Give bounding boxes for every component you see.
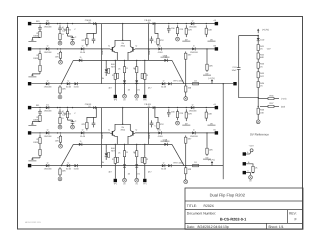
svg-text:MFOS R202 SCH: MFOS R202 SCH: [25, 221, 41, 224]
diode D4: [80, 45, 86, 54]
capacitor C4: [92, 36, 96, 43]
wire emitter drop 1b: [114, 144, 116, 155]
terminal tick J11: [252, 172, 254, 174]
terminal TP0a: [123, 94, 127, 101]
wire emitter 0b: [128, 52, 130, 60]
svg-text:47K: 47K: [160, 39, 164, 42]
svg-text:RP2 100K: RP2 100K: [174, 161, 185, 164]
ground G1d: [58, 95, 62, 99]
resistor R24: [176, 109, 183, 120]
diode D1: [44, 19, 52, 28]
svg-text:100K: 100K: [33, 57, 39, 60]
svg-text:RP1 100K: RP1 100K: [174, 80, 185, 83]
svg-text:Date:: Date:: [187, 225, 195, 229]
node B01: [57, 48, 58, 49]
transistor Q3: [108, 128, 115, 136]
resistor R34: [123, 146, 128, 161]
diode D8b: [168, 82, 171, 85]
diode D9: [44, 103, 52, 112]
diode D7e: [164, 56, 167, 62]
node link 1c: [223, 83, 224, 84]
terminal T0a: [114, 95, 117, 98]
resistor R14: [123, 62, 128, 77]
node bridge 0: [122, 23, 123, 24]
wire row A0 left: [31, 23, 215, 25]
capacitor C10: [71, 120, 77, 125]
ground G2d: [58, 177, 62, 181]
resistor R37: [59, 167, 66, 176]
svg-text:47K: 47K: [188, 113, 192, 116]
diode D10: [257, 36, 265, 44]
svg-text:4148: 4148: [158, 135, 164, 138]
wire A1 stub: [68, 119, 73, 121]
input connector J4: [28, 106, 31, 109]
wire emitter drop 1e: [144, 144, 146, 155]
resistor R9: [81, 36, 88, 46]
resistor R30: [157, 120, 164, 130]
input connector J6: [28, 131, 31, 134]
terminal TP1a: [123, 178, 127, 185]
svg-text:47K: 47K: [81, 39, 85, 42]
net 0V label 1b: [182, 122, 190, 125]
capacitor C9: [58, 109, 66, 116]
output connector J7: [215, 131, 218, 134]
title block row line 1: [185, 200, 303, 202]
wire emitter drop 1e2: [144, 166, 146, 179]
resistor R32: [206, 146, 213, 156]
wire collector bridge 0: [115, 40, 130, 46]
node bias 1b: [154, 107, 155, 108]
terminal T0b: [143, 95, 146, 98]
svg-text:100K: 100K: [33, 35, 39, 38]
svg-text:1N4148: 1N4148: [44, 51, 52, 54]
wire cross right 0: [148, 24, 150, 61]
resistor R36b: [141, 157, 143, 162]
transistor Q4: [130, 128, 137, 136]
diode D7b: [108, 68, 110, 73]
resistor R10: [157, 36, 164, 46]
wire emitter drop 0e: [144, 60, 146, 71]
svg-text:4148: 4148: [66, 86, 72, 89]
svg-text:1N4148: 1N4148: [190, 51, 198, 54]
terminal T1b: [143, 179, 146, 182]
resistor R16b: [141, 73, 143, 78]
svg-text:(+2V): (+2V): [281, 98, 287, 101]
ground G supply: [256, 120, 260, 124]
diode D7a: [44, 80, 52, 89]
node A12: [67, 107, 68, 108]
wire bias 1a: [87, 108, 96, 121]
ground G0b: [71, 41, 75, 45]
svg-text:Q: Q: [108, 128, 110, 131]
wire lower row 1 left: [73, 59, 106, 61]
wire emitter 1b: [128, 136, 130, 144]
wire A0 stub: [68, 35, 73, 37]
connector J10: [243, 152, 246, 155]
resistor R21: [33, 115, 41, 121]
title block row line 3: [185, 222, 303, 224]
resistor R11: [185, 52, 193, 61]
capacitor C1: [58, 25, 66, 32]
svg-text:10K: 10K: [208, 113, 212, 116]
input connector J9: [28, 164, 31, 167]
net 0V label 1a: [28, 123, 36, 126]
svg-text:(1): (1): [88, 105, 91, 108]
wire emitter drop 0d: [136, 87, 138, 94]
resistor R1: [33, 31, 41, 37]
svg-text:22K: 22K: [179, 28, 183, 31]
wire link chain 1b: [185, 94, 187, 97]
svg-text:10K: 10K: [209, 149, 213, 152]
wire link chain 2b: [185, 176, 187, 180]
wire J11: [246, 164, 253, 166]
resistor R13: [112, 71, 117, 82]
net 0V label 0d: [28, 74, 36, 77]
power tag +V 1b: [144, 103, 155, 109]
diode D5: [158, 45, 164, 54]
diode D15: [105, 150, 108, 160]
resistor R3: [63, 25, 69, 36]
resistor R8: [39, 63, 41, 74]
diode D2: [189, 19, 197, 28]
resistor R35: [133, 146, 138, 161]
wire collector bridge 1: [115, 124, 130, 130]
svg-text:(1): (1): [148, 21, 151, 24]
diode D11: [44, 129, 52, 138]
capacitor C0: [38, 25, 42, 31]
wire supply left leg: [238, 36, 240, 63]
wire supply left leg 2: [239, 75, 259, 98]
transistor Q1: [108, 44, 115, 52]
power tag +V 1a: [85, 103, 96, 109]
wire to net label 1b: [32, 158, 40, 160]
resistor R15: [133, 62, 138, 77]
diode D16a: [161, 161, 167, 170]
resistor R18: [193, 79, 199, 85]
capacitor C5: [150, 36, 157, 43]
resistor R38: [55, 135, 62, 144]
diode D15a: [44, 161, 52, 170]
resistor R43: [257, 61, 265, 71]
wire lower row 2 left: [73, 143, 106, 145]
node link 2: [185, 165, 186, 166]
wire chain 1: [206, 133, 208, 147]
svg-text:(+12V): (+12V): [208, 77, 215, 80]
svg-text:Q: Q: [108, 44, 110, 47]
node A11: [57, 107, 58, 108]
svg-text:(1): (1): [148, 105, 151, 108]
node B02: [60, 48, 61, 49]
wire emitter drop 1c: [124, 171, 126, 178]
node bridge 1: [122, 107, 123, 108]
svg-text:+12V: +12V: [249, 145, 255, 148]
diode D13: [158, 129, 164, 138]
output connector J5: [215, 106, 218, 109]
svg-text:-12V: -12V: [266, 48, 271, 51]
title block sheet divider: [266, 223, 268, 229]
wire emitter drop 0e2: [144, 82, 146, 95]
svg-text:100K: 100K: [33, 119, 39, 122]
svg-text:Sheet: 1/1: Sheet: 1/1: [268, 225, 284, 229]
net 0V label 0c: [208, 38, 216, 41]
svg-text:47K: 47K: [81, 123, 85, 126]
wire emitter drop 1a: [105, 144, 107, 150]
svg-text:22K: 22K: [179, 112, 183, 115]
power symbol +12V input: [257, 29, 259, 34]
svg-text:4148: 4148: [66, 168, 72, 171]
svg-text:4148: 4148: [80, 135, 86, 138]
capacitor C2: [71, 36, 77, 41]
svg-text:1N4148: 1N4148: [44, 110, 52, 113]
wire row B0 right: [135, 48, 215, 50]
output connector J2: [215, 22, 218, 25]
resistor R25: [185, 109, 192, 121]
svg-text:R202X: R202X: [204, 204, 215, 208]
node A02: [67, 23, 68, 24]
power symbol +V row C2: [211, 161, 213, 166]
svg-text:0V Reference: 0V Reference: [250, 133, 269, 137]
output connector J6: [233, 82, 236, 85]
wire bias 1c: [155, 108, 158, 121]
resistor R36: [144, 155, 149, 166]
svg-text:(0V): (0V): [281, 106, 285, 109]
title block rev divider: [287, 210, 289, 224]
wire row B0: [31, 48, 110, 50]
wire emitter tap 1b: [136, 144, 138, 146]
ground G ref: [249, 175, 253, 182]
net 0V label 1c: [208, 122, 216, 125]
wire emitter tap 0b: [136, 60, 138, 62]
node A01: [57, 23, 58, 24]
diode D7b: [66, 80, 72, 89]
svg-text:(1): (1): [88, 21, 91, 24]
wire emitter drop 1d: [136, 171, 138, 178]
diode D8: [123, 77, 126, 87]
svg-text:(+12V): (+12V): [262, 29, 269, 32]
svg-text:REV:: REV:: [289, 212, 297, 216]
wire cross left 0: [101, 24, 103, 84]
svg-text:10K: 10K: [209, 65, 213, 68]
wire supply top: [239, 36, 259, 38]
svg-text:10K: 10K: [55, 55, 59, 58]
svg-text:4148: 4148: [74, 86, 80, 89]
resistor R39b: [185, 166, 192, 177]
resistor R22: [59, 117, 61, 125]
resistor R28: [39, 147, 41, 158]
svg-text:Q: Q: [136, 128, 138, 131]
diode D15b: [66, 161, 72, 170]
wire cross diag left 2: [61, 144, 73, 165]
wire inter-half link: [222, 84, 224, 180]
resistor R13b: [117, 73, 119, 78]
svg-text:1N4148: 1N4148: [44, 135, 52, 138]
transistor Q2: [130, 44, 137, 52]
page border frame: [18, 17, 303, 230]
capacitor C10: [232, 62, 241, 75]
diode D16: [123, 161, 126, 171]
node B11: [57, 132, 58, 133]
node C2a: [61, 165, 62, 166]
wire bridge riser 1: [122, 108, 124, 125]
ground G1b: [71, 125, 75, 129]
diode D15c: [74, 164, 80, 171]
net 0V label 0a: [28, 39, 36, 42]
svg-text:1N4148: 1N4148: [189, 110, 197, 113]
capacitor C3: [167, 25, 175, 33]
wire branch 1: [258, 98, 260, 100]
svg-text:10uF: 10uF: [232, 69, 238, 72]
resistor R31: [185, 136, 193, 145]
svg-text:4148: 4148: [74, 168, 80, 171]
power tag +V 0a: [85, 19, 96, 25]
svg-text:TITLE:: TITLE:: [187, 204, 197, 208]
net 0V label 1d: [28, 158, 36, 161]
node bridge center 1: [122, 124, 123, 125]
resistor R49: [252, 166, 258, 173]
resistor R5: [185, 25, 192, 37]
wire cross diag left 1: [61, 60, 73, 83]
wire row C1: [31, 83, 233, 85]
ground G1c: [176, 121, 180, 125]
node bias 0b: [154, 23, 155, 24]
diode D12: [80, 129, 86, 138]
svg-text:47K: 47K: [188, 29, 192, 32]
wire emitter tap 1: [124, 144, 126, 146]
connector J12: [243, 171, 246, 174]
wire supply mid: [257, 90, 259, 107]
resistor R7: [33, 51, 41, 63]
wire cross diag right 1: [172, 60, 184, 83]
svg-text:10K: 10K: [208, 29, 212, 32]
wire lower row 1 right: [142, 59, 172, 61]
diode D15d: [79, 140, 82, 146]
ground G0f: [59, 60, 63, 64]
wire to net label 0b: [32, 74, 40, 76]
input connector J1: [28, 22, 31, 25]
wire emitter drop 0b2: [114, 82, 116, 95]
wire to net label 0a: [32, 38, 40, 41]
wire bias 1b: [93, 117, 95, 120]
wire row B1: [31, 132, 110, 134]
svg-text:1N4148: 1N4148: [190, 135, 198, 138]
svg-text:Clk Pin: Clk Pin: [64, 29, 72, 32]
wire emitter drop 0c: [124, 87, 126, 94]
node supply junction 2: [258, 106, 259, 107]
resistor R17: [59, 85, 66, 94]
wire row A1 left: [31, 107, 215, 109]
wire row B1 right: [135, 132, 215, 134]
junction dots 1: [39, 107, 207, 145]
wire supply bottom: [257, 116, 259, 120]
resistor R2: [59, 33, 61, 41]
terminal TP1b: [135, 178, 139, 185]
wire emitter drop 1b2: [114, 166, 116, 179]
node B12: [60, 132, 61, 133]
svg-text:10K: 10K: [55, 139, 59, 142]
ground G1e: [184, 97, 188, 101]
resistor R6: [205, 25, 212, 37]
diode D17: [135, 161, 138, 171]
ground G2e: [184, 180, 188, 184]
wire emitter 0a: [115, 52, 117, 60]
svg-text:Document Number:: Document Number:: [187, 212, 216, 216]
resistor R47: [260, 102, 285, 108]
svg-text:47K: 47K: [160, 123, 164, 126]
svg-text:1N4148: 1N4148: [189, 26, 197, 29]
wire emitter tap 0: [124, 60, 126, 62]
title block outer box: [185, 188, 303, 229]
connector J11: [243, 162, 246, 165]
output connector J4: [215, 47, 218, 50]
wire link chain 1: [185, 61, 187, 84]
diode D9: [135, 77, 138, 87]
diode D7d: [79, 56, 82, 62]
terminal T1a: [114, 179, 117, 182]
title block row line 2: [185, 209, 303, 211]
diode D7: [105, 66, 108, 76]
terminal TP0b: [135, 94, 139, 101]
diode D14: [190, 129, 198, 138]
net 0V label 1e: [203, 156, 211, 159]
resistor R42: [257, 52, 265, 61]
svg-text:4148: 4148: [161, 168, 167, 171]
diode D16b: [168, 164, 171, 167]
node bias 1a: [96, 107, 97, 108]
ground G0c: [176, 37, 180, 41]
svg-text:4148: 4148: [161, 86, 167, 89]
node supply junction: [258, 97, 259, 98]
node bias 0a: [96, 23, 97, 24]
resistor R33: [112, 155, 117, 166]
wire cross left 1: [101, 108, 103, 168]
diode D7c: [74, 82, 80, 89]
node link 1: [185, 83, 186, 84]
wire emitter rail 0: [106, 59, 142, 61]
power symbol +V row C1: [211, 79, 213, 84]
node supply top: [258, 35, 259, 36]
wire bias 0c: [155, 24, 158, 37]
svg-text:4148: 4148: [158, 51, 164, 54]
input connector J3: [28, 82, 31, 85]
ground G1f: [59, 144, 63, 148]
ground G0a: [58, 41, 62, 45]
wire cross diag right 2: [172, 144, 184, 165]
wire chain 0: [206, 49, 208, 63]
resistor R46: [260, 94, 287, 100]
svg-text:1N4148: 1N4148: [44, 168, 52, 171]
capacitor C11: [167, 109, 175, 117]
resistor R29: [81, 120, 88, 130]
wire J12: [246, 173, 250, 175]
svg-text:8/24/2012 04:04:13p: 8/24/2012 04:04:13p: [198, 225, 229, 229]
wire link chain 2: [185, 145, 187, 166]
input connector J3: [28, 47, 31, 50]
wire cross right 1: [148, 108, 150, 145]
resistor R27: [33, 135, 41, 147]
resistor R26: [205, 109, 212, 121]
diode D10: [189, 103, 197, 112]
svg-text:Dual Flip Flop R202: Dual Flip Flop R202: [210, 193, 246, 198]
resistor R44: [257, 70, 265, 80]
resistor R48: [257, 106, 265, 116]
wire lower row 2 right: [142, 143, 172, 145]
svg-text:100K: 100K: [33, 141, 39, 144]
capacitor C13: [150, 120, 157, 127]
resistor R23: [63, 109, 69, 120]
node C1a: [61, 83, 62, 84]
diode D3: [44, 45, 52, 54]
wire emitter drop 0a: [105, 60, 107, 66]
